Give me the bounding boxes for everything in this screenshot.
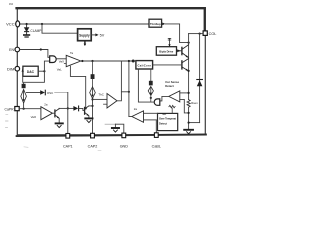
svg-text:CaliCore: CaliCore (137, 63, 151, 67)
wire gate G1 output to comparator A (56, 58, 66, 60)
svg-text:Ta: Ta (70, 51, 73, 55)
resistor Rsense (187, 100, 190, 108)
wire op-amp B input from CAP2 node (93, 98, 108, 100)
wire U4 lower input below resistor (180, 99, 189, 113)
op-amp U4 current sense comparator (169, 91, 180, 102)
wire rsense bottom to diode line (189, 122, 200, 124)
VCC pin (16, 21, 20, 27)
wire collector rail vertical (188, 34, 190, 100)
svg-text:VaL: VaL (57, 68, 62, 72)
bottom pin GND (122, 133, 126, 138)
svg-text:GND: GND (120, 144, 129, 148)
svg-text:Bipla Drive: Bipla Drive (159, 50, 174, 54)
svg-text:COL: COL (209, 32, 217, 36)
diode OSC row (26, 92, 40, 94)
svg-text:DIM: DIM (7, 66, 14, 71)
wire gate G2 output (138, 69, 154, 102)
diode D1 (197, 80, 203, 86)
wire regulator output arrow (162, 23, 165, 26)
bottom pin CaBL (154, 133, 158, 138)
wire Q4 emitter ground (88, 116, 90, 118)
wire branch under op-amp A (70, 66, 85, 108)
wire vertical merge line (128, 61, 130, 117)
wire Q3 emitter to ground (58, 118, 60, 123)
svg-text:VaX: VaX (59, 60, 64, 64)
supply box (78, 29, 92, 41)
svg-text:ThC: ThC (98, 93, 103, 97)
svg-text:EN: EN (9, 48, 14, 52)
svg-text:2a: 2a (44, 103, 48, 107)
current source I3 under core box (150, 69, 152, 81)
svg-text:v.c: v.c (9, 2, 13, 6)
svg-text:ThmSup: ThmSup (150, 22, 161, 26)
wire EN to gate (20, 50, 50, 58)
wire DIM node down to current source (22, 69, 24, 83)
svg-text:CAP1: CAP1 (63, 144, 73, 148)
bottom pin CAP1 (66, 134, 70, 139)
wire core to Q2 base (153, 64, 182, 66)
transistor Q1 (177, 45, 189, 57)
wire GND pin branch (115, 124, 123, 133)
COL pin (203, 31, 207, 36)
current source I1 (22, 84, 26, 88)
wire CaPR row to op-amp E (19, 108, 41, 110)
zener diode CLAMP (25, 25, 29, 35)
top border thick (17, 7, 205, 9)
svg-text:CaBL: CaBL (152, 144, 161, 148)
right border top thick segment (204, 8, 206, 31)
transistor Q4 (85, 106, 89, 115)
transistor Q3 (52, 112, 55, 114)
wire DAC output (38, 70, 44, 72)
svg-text:Rsen: Rsen (191, 101, 198, 105)
wire supply stub down (84, 41, 86, 45)
wire CAP2 line (92, 98, 94, 133)
wire op-amp B lower input stub (104, 103, 108, 105)
pin DIM (15, 66, 20, 71)
wire op-amp B output jog (117, 61, 121, 101)
current source arrow above drive box (168, 38, 171, 47)
wire CaBL pin line (155, 120, 157, 133)
scan noise marks (6, 120, 9, 122)
svg-text:VaO: VaO (31, 115, 37, 119)
IC outline border (17, 8, 205, 135)
op-amp A (66, 55, 81, 66)
svg-text:TaR: TaR (162, 112, 167, 116)
diode D2 row (68, 107, 74, 109)
svg-text:Supply: Supply (79, 33, 90, 37)
op-amp B (107, 94, 117, 109)
ground under CLAMP (24, 35, 30, 37)
svg-text:OSC: OSC (47, 91, 53, 95)
svg-text:DAC: DAC (27, 70, 35, 74)
wire CAP1 line (67, 93, 69, 134)
wire op-amp C output (129, 116, 132, 118)
svg-text:CaPR: CaPR (5, 108, 15, 112)
op-amp C (132, 111, 144, 122)
diode line vertical (199, 34, 201, 123)
wire 5V output arrow (92, 34, 96, 36)
wire branch to supply box (42, 24, 78, 33)
svg-text:CLAMP: CLAMP (30, 29, 41, 33)
transistor Q2 (182, 59, 189, 71)
svg-text:Detect: Detect (159, 121, 167, 125)
svg-text:5V: 5V (100, 33, 105, 37)
wire COL to collector rail (189, 33, 203, 35)
node junction on VCC rail (26, 23, 28, 25)
wire VCC rail y=24 (20, 23, 150, 25)
op-amp E (41, 107, 53, 120)
gate G1 (50, 56, 57, 63)
regulator box top right (149, 19, 162, 27)
DAC box (23, 66, 38, 76)
wire Q3 collector to diode row (59, 107, 68, 109)
over temperature detect box (158, 113, 178, 130)
bottom border thick (17, 135, 206, 137)
drive box (Bipla Drive) (156, 47, 176, 56)
svg-text:2a: 2a (134, 107, 138, 111)
ground main (184, 129, 193, 131)
wire op-amp C inputs (144, 112, 158, 114)
wire op-amp A lower input stub (64, 63, 66, 65)
bottom pin CAP2 (91, 133, 95, 138)
wire U4 upper input to rail (180, 92, 189, 94)
wire op-amp A output row (81, 60, 136, 62)
svg-text:Detect: Detect (165, 84, 174, 88)
svg-text:CAP2: CAP2 (88, 144, 98, 148)
wire U4 output to gate (160, 96, 169, 101)
gate G2 (154, 99, 160, 105)
wire DAC to current source I1 (24, 71, 45, 84)
control core box (136, 61, 153, 69)
current source I2 on CAP2 line (91, 60, 93, 62)
svg-text:VCC: VCC (6, 22, 15, 27)
svg-text:Over Temperat: Over Temperat (159, 116, 176, 120)
thermal resistor above OT box (169, 105, 175, 107)
pin EN (15, 47, 20, 52)
pin CaPR (15, 107, 19, 111)
